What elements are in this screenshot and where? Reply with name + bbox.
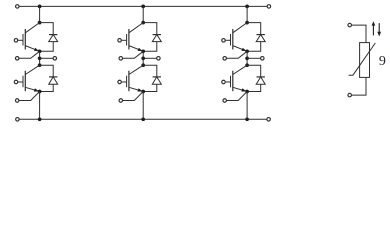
wire aux emitter lead Q1: [19, 51, 39, 58]
wire aux emitter lead Q4: [123, 92, 143, 101]
wire D1 branch bottom: [40, 42, 54, 52]
terminal DC- left N: [16, 118, 20, 122]
wire D3 branch bottom: [143, 42, 157, 52]
transistor Q4 (IGBT): [122, 65, 144, 91]
wire D6 branch top: [247, 65, 261, 77]
terminal DC+ right P: [267, 5, 271, 8]
terminal auxiliary emitter Q5: [223, 57, 227, 61]
terminal auxiliary emitter Q1: [15, 57, 19, 61]
diode D5: [256, 35, 265, 42]
diode D2: [49, 77, 58, 84]
wire leg3 collector drop Q5: [246, 6, 248, 22]
wire D3 branch top: [143, 23, 157, 35]
terminal thermistor T1: [348, 23, 352, 27]
wire thermistor bottom lead: [352, 77, 366, 95]
terminal phase output W: [261, 57, 265, 61]
wire leg1 emitter drop Q2: [39, 92, 41, 120]
terminal DC- right N: [267, 118, 271, 122]
down arrow resistance fall: [377, 23, 381, 36]
junction leg3 Q5 collector node: [245, 21, 249, 25]
junction leg3 Q6 collector node: [245, 63, 249, 67]
wire leg2 phase node vertical: [142, 51, 144, 65]
transistor Q1 (IGBT): [18, 23, 39, 52]
junction leg2 Q3 emitter node: [141, 49, 145, 53]
wire phase lead W: [247, 57, 260, 59]
diode D6: [256, 77, 265, 84]
junction leg1 Q1 emitter node: [38, 49, 42, 53]
terminal auxiliary emitter Q3: [119, 57, 123, 61]
wire leg2 emitter drop Q4: [142, 92, 144, 120]
terminal thermistor T2: [348, 93, 352, 97]
terminal DC+ left P: [16, 5, 20, 8]
wire thermistor top lead: [352, 25, 366, 42]
junction leg3 Q5 emitter node: [245, 49, 249, 53]
junction leg2 Q4 collector node: [141, 63, 145, 67]
diode D1: [49, 35, 58, 42]
terminal auxiliary emitter Q6: [223, 99, 227, 103]
diode D4: [152, 77, 161, 84]
wire phase lead V: [143, 57, 156, 59]
junction leg2 phase tap V: [141, 56, 145, 60]
wire D2 branch top: [40, 65, 54, 77]
wire D4 branch bottom: [143, 84, 157, 91]
terminal gate Q4: [118, 80, 122, 84]
junction leg1 DC- rail tap: [38, 117, 42, 121]
transistor Q3 (IGBT): [122, 23, 144, 52]
junction leg2 Q4 emitter node: [141, 90, 145, 94]
wire aux emitter lead Q2: [19, 92, 39, 101]
wire phase lead U: [40, 57, 53, 59]
junction leg1 DC+ rail tap: [38, 5, 42, 9]
up arrow temperature rise: [372, 21, 376, 35]
junction leg1 Q2 collector node: [38, 63, 42, 67]
wire leg1 collector drop Q1: [39, 6, 41, 22]
wire DC- bus rail: [19, 118, 266, 120]
transistor Q6 (IGBT): [226, 65, 248, 91]
terminal gate Q6: [222, 80, 226, 84]
wire D2 branch bottom: [40, 84, 54, 91]
terminal auxiliary emitter Q2: [15, 99, 19, 103]
junction leg3 DC- rail tap: [245, 117, 249, 121]
terminal gate Q1: [14, 39, 18, 43]
junction leg1 Q2 emitter node: [38, 90, 42, 94]
transistor Q5 (IGBT): [226, 23, 248, 52]
terminal phase output V: [157, 57, 161, 61]
wire D4 branch top: [143, 65, 157, 77]
junction leg3 DC+ rail tap: [245, 5, 249, 9]
junction leg2 DC+ rail tap: [141, 5, 145, 9]
terminal gate Q5: [222, 39, 226, 43]
transistor Q2 (IGBT): [18, 65, 39, 91]
thermistor R1 (NTC): [349, 43, 376, 78]
junction leg3 Q6 emitter node: [245, 90, 249, 94]
wire leg3 phase node vertical: [246, 51, 248, 65]
wire aux emitter lead Q5: [227, 51, 247, 58]
junction leg2 Q3 collector node: [141, 21, 145, 25]
wire aux emitter lead Q3: [123, 51, 143, 58]
junction leg1 Q1 collector node: [38, 21, 42, 25]
junction leg1 phase tap U: [38, 56, 42, 60]
terminal auxiliary emitter Q4: [119, 99, 123, 103]
wire leg3 emitter drop Q6: [246, 92, 248, 120]
wire leg1 phase node vertical: [39, 51, 41, 65]
wire D6 branch bottom: [247, 84, 261, 91]
junction leg2 DC- rail tap: [141, 117, 145, 121]
terminal gate Q2: [14, 80, 18, 84]
terminal gate Q3: [118, 39, 122, 43]
terminal phase output U: [53, 57, 57, 61]
wire aux emitter lead Q6: [227, 92, 247, 101]
wire DC+ bus rail: [19, 5, 267, 7]
wire D5 branch bottom: [247, 42, 261, 52]
diode D3: [152, 35, 161, 42]
junction leg3 phase tap W: [245, 56, 249, 60]
svg-text:9: 9: [379, 54, 386, 69]
wire leg2 collector drop Q3: [142, 6, 144, 22]
wire D5 branch top: [247, 23, 261, 35]
wire D1 branch top: [40, 23, 54, 35]
